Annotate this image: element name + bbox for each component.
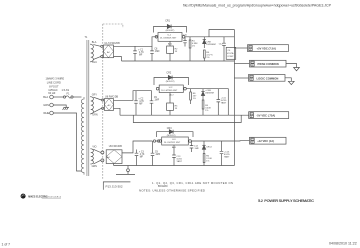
capacitor C8 <box>150 46 160 61</box>
diode CR1 <box>154 19 187 32</box>
svg-text:LOGIC COMMON: LOGIC COMMON <box>257 76 279 80</box>
diode CR3 <box>157 127 194 137</box>
wire S1 to bridge CR1-5 <box>93 45 100 47</box>
wire bus to +5V box <box>234 47 247 49</box>
secondary winding S3 <box>91 145 97 168</box>
svg-text:5.2 POWER SUPPLY SCHEMATIC: 5.2 POWER SUPPLY SCHEMATIC <box>258 198 314 203</box>
bridge rectifier U1-5 <box>101 42 120 58</box>
svg-text:-5V VDC (.75A): -5V VDC (.75A) <box>256 114 275 118</box>
svg-text:GRN: GRN <box>43 103 49 107</box>
output box +12V <box>250 137 287 144</box>
capacitor C9 <box>150 91 160 116</box>
svg-text:60 HZ: 60 HZ <box>48 91 55 95</box>
secondary winding S1 <box>91 41 97 64</box>
wire bridge- to common rail <box>114 57 122 61</box>
svg-text:1%: 1% <box>193 98 196 100</box>
svg-text:NOTES: UNLESS OTHERWISE SPECIF: NOTES: UNLESS OTHERWISE SPECIFIED <box>139 188 205 192</box>
wire GRN to chassis ground <box>53 105 66 107</box>
output box PWSE COMMON <box>250 60 287 67</box>
svg-text:BLU: BLU <box>92 61 97 64</box>
svg-text:+12 VDC (1A): +12 VDC (1A) <box>257 139 274 143</box>
row3 output rail <box>191 140 249 142</box>
svg-text:AC: AC <box>108 104 111 107</box>
bridge rectifier U9 <box>101 145 122 163</box>
svg-text:BLA: BLA <box>43 95 48 99</box>
connector pin WHE <box>43 111 53 115</box>
svg-text:www.electricstuff.uk: www.electricstuff.uk <box>42 195 62 198</box>
ground at LOGIC COMMON <box>285 78 294 85</box>
svg-text:CR12: CR12 <box>206 147 212 149</box>
svg-text:.1MF: .1MF <box>155 154 161 156</box>
line cord note text <box>46 77 65 96</box>
regulator U2 <box>156 85 186 96</box>
svg-text:U8 FWC/DB: U8 FWC/DB <box>105 96 119 99</box>
svg-text:WHE: WHE <box>43 111 49 115</box>
capacitor C3 <box>135 150 145 166</box>
svg-text:.1MF: .1MF <box>194 148 200 150</box>
transformer core <box>87 40 89 176</box>
svg-text:GRN: GRN <box>92 114 98 117</box>
resistor R6 <box>203 154 212 166</box>
resistor R1 <box>189 37 198 61</box>
capacitor C1 <box>133 46 144 61</box>
row2 output rail <box>186 89 228 116</box>
svg-text:1%: 1% <box>206 160 209 162</box>
wire bus to LOGIC COMMON <box>235 77 249 79</box>
output box +5V <box>248 45 289 52</box>
resistor R4 <box>204 50 214 61</box>
svg-text:TANT: TANT <box>224 155 230 158</box>
capacitor C13 <box>172 145 182 166</box>
diode CR2 <box>154 72 189 85</box>
svg-text:U9 FWC/DB: U9 FWC/DB <box>109 145 123 148</box>
svg-text:MF: MF <box>140 157 144 159</box>
wire WHE to primary bottom <box>53 113 81 171</box>
center tap return stub <box>116 166 135 175</box>
wire bridge+ to regulator U2 <box>114 91 152 101</box>
svg-text:AC: AC <box>107 51 110 54</box>
secondary winding S2 <box>91 93 98 116</box>
wire BLA to fuse <box>53 96 63 98</box>
svg-text:AC: AC <box>107 156 110 159</box>
zener CR8 LM336BZ <box>203 37 217 48</box>
potentiometer R2 <box>167 41 179 61</box>
diode CR8 <box>201 89 214 100</box>
connector label P13 J13-302 <box>103 182 130 190</box>
wire bridge+ to C1 node <box>114 37 159 47</box>
comparator box C4 VOLTA COMP <box>226 47 236 59</box>
row2 common rail <box>120 114 249 116</box>
transistor Q3 pads <box>153 140 160 142</box>
row1 output rail <box>185 36 235 38</box>
svg-text:1%: 1% <box>206 57 209 59</box>
svg-text:+5V VDC (7.5A): +5V VDC (7.5A) <box>257 47 277 51</box>
transformer T1 primary winding <box>81 97 84 175</box>
svg-text:GRN: GRN <box>92 165 98 168</box>
bridge rectifier U8 <box>102 96 119 111</box>
fuse F1 <box>62 88 74 98</box>
svg-text:COMP: COMP <box>227 56 234 58</box>
svg-text:8 FOOT: 8 FOOT <box>49 84 59 88</box>
connector pin BLA <box>43 95 53 99</box>
row3 common rail <box>114 165 235 167</box>
wire bridge- to row2 common rail <box>114 108 121 115</box>
svg-text:.1MF: .1MF <box>154 51 160 53</box>
capacitor C10 <box>183 35 188 47</box>
+5V sense line <box>209 30 234 37</box>
svg-text:(MOUNT): (MOUNT) <box>166 30 175 32</box>
svg-text:VIO: VIO <box>92 145 96 148</box>
svg-text:1 of 7: 1 of 7 <box>2 242 11 246</box>
capacitor C9c <box>151 141 161 166</box>
wire bridge+ to regulator U3 <box>122 141 153 153</box>
svg-text:CR1: CR1 <box>165 19 170 22</box>
svg-text:MF: MF <box>139 54 143 56</box>
svg-text:DL LM7812 SNT: DL LM7812 SNT <box>164 142 181 144</box>
svg-text:CR2: CR2 <box>166 72 171 75</box>
note 1 <box>152 181 233 188</box>
wire S3 to bridge CR7 <box>93 149 100 152</box>
chassis shield dashed boundary <box>103 24 123 180</box>
svg-text:PWSE COMMON: PWSE COMMON <box>258 62 279 66</box>
row2 return line <box>133 115 241 122</box>
svg-text:MF: MF <box>139 103 143 105</box>
output box LOGIC COMMON <box>249 75 286 82</box>
svg-text:file:///D|/Mits/Manuals_mod_us: file:///D|/Mits/Manuals_mod_us_program/H… <box>183 4 332 8</box>
regulator U1 <box>155 33 185 46</box>
svg-text:04/08/2010 11:22: 04/08/2010 11:22 <box>329 242 357 246</box>
wire fuse to primary <box>73 96 81 98</box>
capacitor C14 <box>190 141 200 152</box>
svg-text:.1MF: .1MF <box>154 100 160 102</box>
svg-text:1%: 1% <box>192 46 195 48</box>
diode CR12 <box>202 141 212 154</box>
capacitor C12 <box>219 37 226 61</box>
resistor R4b <box>202 100 211 115</box>
svg-text:P13 J13-302: P13 J13-302 <box>106 185 123 189</box>
svg-text:DL LM350K SNT: DL LM350K SNT <box>160 38 177 40</box>
ground at PWSE COMMON <box>286 64 299 71</box>
capacitor C15 <box>220 141 231 166</box>
resistor R6a <box>190 89 197 104</box>
svg-text:18AWG 3 WIRE: 18AWG 3 WIRE <box>46 77 65 81</box>
capacitor C11 <box>217 89 228 116</box>
potentiometer R5 <box>167 93 179 116</box>
svg-text:GRY: GRY <box>92 93 98 96</box>
svg-text:LINE CORD: LINE CORD <box>47 81 61 85</box>
svg-text:TANT: TANT <box>221 102 227 105</box>
capacitor C2 <box>134 91 144 116</box>
svg-text:(MOUNT): (MOUNT) <box>166 81 175 83</box>
wire bridge- to row3 common rail <box>113 164 115 166</box>
row1 common rail <box>122 60 235 62</box>
svg-text:1%: 1% <box>205 110 208 112</box>
wire S2 to bridge CR6 <box>93 97 101 100</box>
svg-text:VOLTA: VOLTA <box>227 52 234 55</box>
chassis ground <box>63 107 69 110</box>
svg-text:DL LM7905 SNT: DL LM7905 SNT <box>161 90 178 92</box>
output box -5V <box>249 112 289 119</box>
common bus <box>233 30 235 166</box>
svg-text:BLA: BLA <box>92 41 97 44</box>
connector pin GRN <box>43 103 53 107</box>
regulator U3 <box>159 137 192 149</box>
svg-text:U1-5 FWC/DB: U1-5 FWC/DB <box>104 42 120 45</box>
svg-text:TANT: TANT <box>176 160 182 163</box>
svg-text:LM809M: LM809M <box>205 93 214 95</box>
svg-text:LM336BZ: LM336BZ <box>206 44 216 46</box>
wire bus to PWSE COMMON <box>235 63 250 65</box>
logo <box>21 194 62 199</box>
